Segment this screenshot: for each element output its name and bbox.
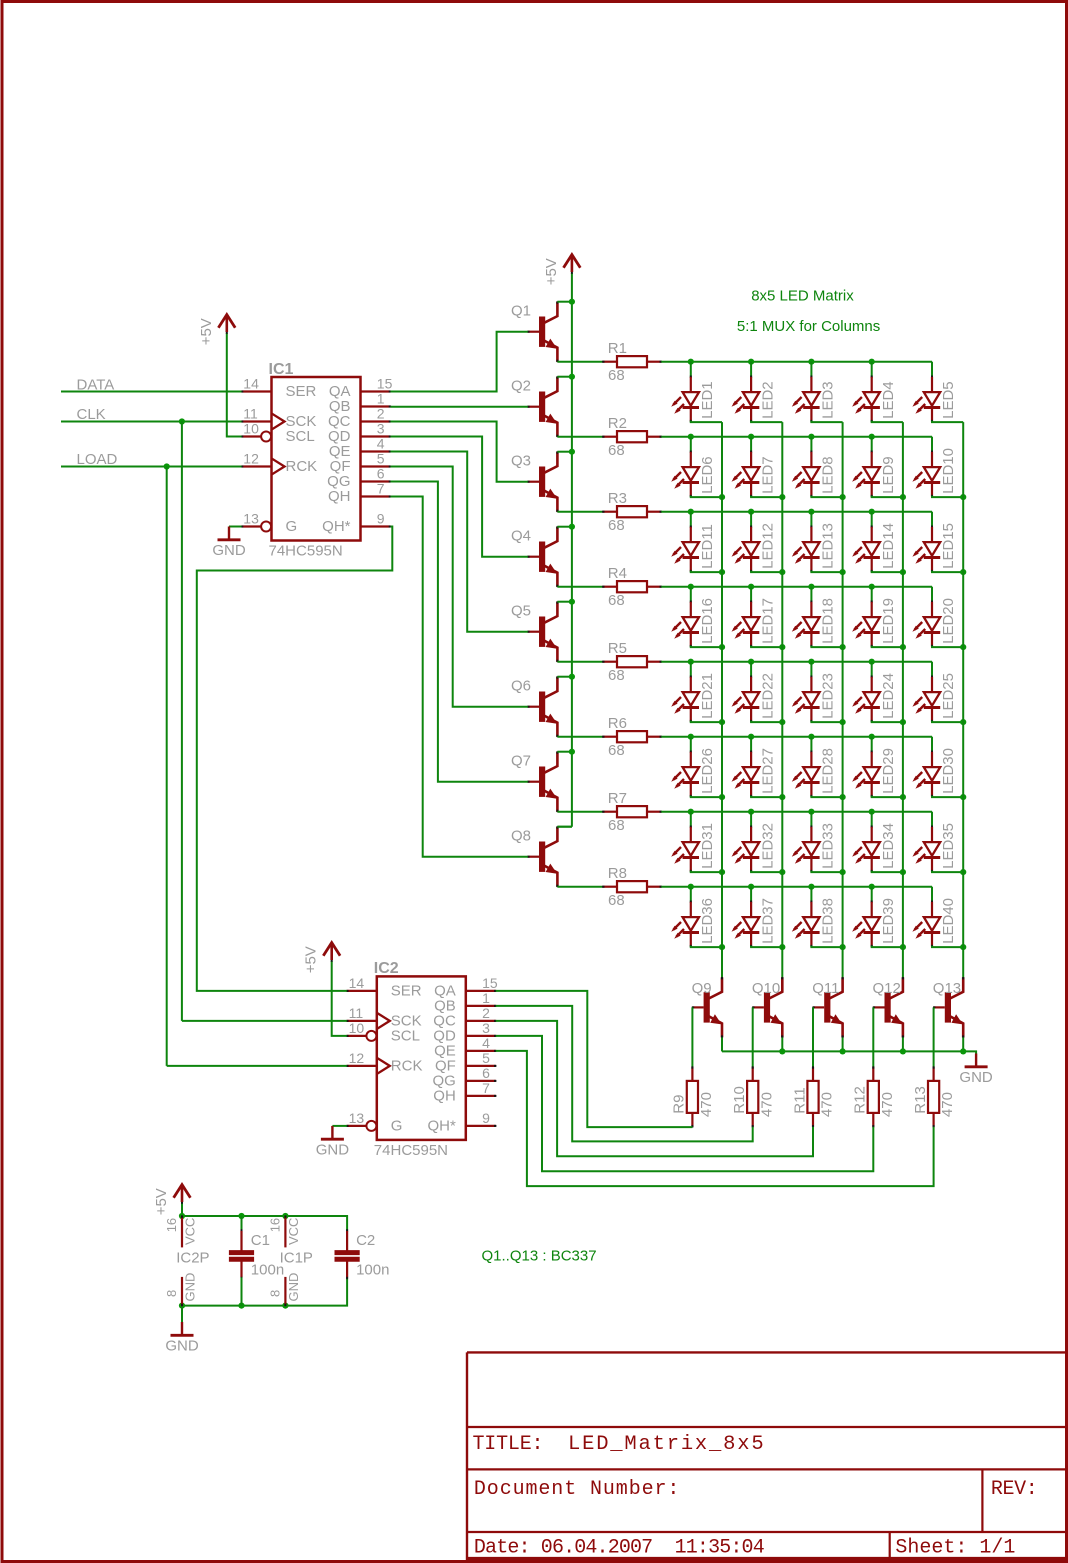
wire +5V to VCC rail xyxy=(181,1203,183,1216)
resistor R3 68 xyxy=(603,511,617,513)
wire LED7 cathode jog to column bus 2 xyxy=(751,496,782,497)
pin 15 QA of IC2 xyxy=(466,990,496,992)
LED LED29 xyxy=(871,737,873,752)
LED LED7 xyxy=(750,437,752,452)
junction cathode bus 1 row 4 xyxy=(719,644,725,650)
wire LED9 cathode jog to column bus 4 xyxy=(872,496,903,497)
svg-text:+5V: +5V xyxy=(153,1188,170,1215)
junction cathode bus 3 row 6 xyxy=(840,794,846,800)
power pin VCC 16 of IC2P xyxy=(181,1216,183,1247)
svg-text:LED3: LED3 xyxy=(820,381,837,419)
+5V power symbol xyxy=(181,1201,183,1204)
LED LED14 xyxy=(871,512,873,527)
wire LED15 cathode jog to column bus 5 xyxy=(932,571,963,572)
junction on LOAD xyxy=(164,463,170,469)
junction cathode bus 1 row 3 xyxy=(719,569,725,575)
svg-text:Q13: Q13 xyxy=(933,980,961,997)
svg-text:R12: R12 xyxy=(852,1086,869,1114)
svg-text:QH: QH xyxy=(328,488,351,505)
svg-text:LED1: LED1 xyxy=(699,381,716,419)
power pin GND 8 of IC2P xyxy=(181,1277,183,1306)
junction cathode bus 2 row 4 xyxy=(779,644,785,650)
junction cathode bus 1 row 8 xyxy=(719,944,725,950)
svg-text:Sheet: 1/1: Sheet: 1/1 xyxy=(895,1537,1015,1560)
power pin VCC 16 of IC1P xyxy=(284,1216,286,1247)
wire CLK to IC2 SCK vertical xyxy=(181,422,183,1021)
svg-text:1: 1 xyxy=(482,990,490,1006)
transistor Q13 xyxy=(945,992,951,1022)
svg-text:LED24: LED24 xyxy=(880,673,897,719)
svg-text:IC2: IC2 xyxy=(374,960,399,977)
transistor Q6 xyxy=(539,692,545,722)
+5V power symbol xyxy=(331,959,333,962)
wire Q12 base down to R12 xyxy=(872,1007,874,1067)
resistor R5 68 xyxy=(603,661,617,663)
svg-text:LED27: LED27 xyxy=(759,748,776,794)
LED LED32 xyxy=(750,812,752,827)
svg-text:LED23: LED23 xyxy=(820,673,837,719)
resistor R13 470 xyxy=(932,1067,934,1081)
junction cathode bus 2 row 3 xyxy=(779,569,785,575)
LED LED15 xyxy=(931,512,933,527)
svg-text:IC1: IC1 xyxy=(269,361,294,378)
junction cathode bus 3 row 4 xyxy=(840,644,846,650)
junction cathode bus 2 row 8 xyxy=(779,944,785,950)
IC IC2 74HC595N box xyxy=(377,976,466,1140)
LED LED28 xyxy=(810,737,812,752)
svg-text:Q2: Q2 xyxy=(511,378,531,395)
svg-text:68: 68 xyxy=(608,667,625,684)
LED LED37 xyxy=(750,887,752,902)
wire IC2 QA to R9 xyxy=(496,991,693,1127)
wire LED31 cathode jog to column bus 1 xyxy=(691,871,722,872)
junction on CLK xyxy=(179,418,185,424)
svg-text:RCK: RCK xyxy=(391,1058,423,1075)
wire Q1 emitter to R1 xyxy=(557,361,602,363)
wire LED19 cathode jog to column bus 4 xyxy=(872,646,903,647)
title block REV divider xyxy=(981,1469,983,1532)
junction anode LED1 xyxy=(688,359,694,365)
junction Q11 emitter on ground rail xyxy=(840,1048,846,1054)
wire LED17 cathode jog to column bus 2 xyxy=(751,646,782,647)
junction cathode bus 1 row 6 xyxy=(719,794,725,800)
wire LED10 cathode jog to column bus 5 xyxy=(932,496,963,497)
wire IC2 G to ground xyxy=(332,1125,346,1127)
svg-text:Q10: Q10 xyxy=(752,980,780,997)
LED LED1 xyxy=(690,362,692,377)
svg-text:470: 470 xyxy=(758,1092,775,1117)
wire IC2 QC to R11 xyxy=(496,1021,813,1156)
svg-text:LED30: LED30 xyxy=(940,748,957,794)
svg-text:LED40: LED40 xyxy=(940,898,957,944)
junction Q4 collector on rail xyxy=(569,524,575,530)
LED LED23 xyxy=(810,662,812,677)
pin 3 QD of IC2 xyxy=(466,1035,496,1037)
wire GND rail to ground symbol xyxy=(181,1306,183,1322)
svg-text:68: 68 xyxy=(608,742,625,759)
svg-text:Q8: Q8 xyxy=(511,828,531,845)
junction cathode bus 3 row 5 xyxy=(840,719,846,725)
wire Q7 collector to +5V rail xyxy=(557,751,572,753)
svg-text:LED17: LED17 xyxy=(759,598,776,644)
wire IC1 QE to Q5 base xyxy=(391,452,528,632)
resistor R8 68 xyxy=(603,886,617,888)
LED LED11 xyxy=(690,512,692,527)
pin 6 QG of IC1 xyxy=(361,480,391,482)
wire LED6 cathode jog to column bus 1 xyxy=(691,496,722,497)
svg-text:+5V: +5V xyxy=(543,258,560,285)
pin 12 RCK of IC2 xyxy=(347,1065,377,1067)
junction VCC rail at IC2P xyxy=(179,1213,185,1219)
capacitor C1 100n xyxy=(241,1216,243,1231)
wire Q6 collector to +5V rail xyxy=(557,676,572,678)
svg-text:GND: GND xyxy=(316,1142,350,1159)
junction cathode bus 1 row 2 xyxy=(719,494,725,500)
svg-text:SER: SER xyxy=(391,983,422,1000)
LED LED8 xyxy=(810,437,812,452)
junction Q12 emitter on ground rail xyxy=(900,1048,906,1054)
junction anode LED27 xyxy=(748,734,754,740)
column bus 3 vertical wire xyxy=(842,422,844,978)
svg-text:8x5 LED Matrix: 8x5 LED Matrix xyxy=(751,288,854,305)
LED LED33 xyxy=(810,812,812,827)
ground xyxy=(228,527,230,539)
svg-text:10: 10 xyxy=(243,421,259,437)
svg-text:LED38: LED38 xyxy=(820,898,837,944)
junction cathode bus 5 row 6 xyxy=(960,794,966,800)
wire Q6 emitter to R6 xyxy=(557,736,602,738)
wire LED37 cathode jog to column bus 2 xyxy=(751,946,782,947)
LED LED35 xyxy=(931,812,933,827)
junction anode LED9 xyxy=(869,434,875,440)
svg-text:R1: R1 xyxy=(608,340,627,357)
svg-text:LED12: LED12 xyxy=(759,523,776,569)
wire LED16 cathode jog to column bus 1 xyxy=(691,646,722,647)
wire LED39 cathode jog to column bus 4 xyxy=(872,946,903,947)
wire IC2 QE to R13 xyxy=(496,1051,934,1186)
pin 5 QF of IC2 xyxy=(466,1065,496,1067)
junction anode LED39 xyxy=(869,884,875,890)
wire Q4 emitter to R4 xyxy=(557,586,602,588)
wire R2 to LED row 2 anodes xyxy=(661,436,932,438)
LED LED39 xyxy=(871,887,873,902)
svg-text:SER: SER xyxy=(286,383,317,400)
pin 5 QF of IC1 xyxy=(361,465,391,467)
wire Q10 base down to R10 xyxy=(752,1007,754,1067)
svg-text:9: 9 xyxy=(377,511,385,527)
svg-text:LED21: LED21 xyxy=(699,673,716,719)
wire IC1 QC to Q3 base xyxy=(391,422,528,482)
junction Q7 collector on rail xyxy=(569,749,575,755)
junction Q5 collector on rail xyxy=(569,599,575,605)
column bus 4 vertical wire xyxy=(902,422,904,978)
junction anode LED6 xyxy=(688,434,694,440)
svg-text:LED19: LED19 xyxy=(880,598,897,644)
transistor Q5 xyxy=(539,617,545,647)
wire Q8 emitter to R8 xyxy=(557,886,602,888)
pin 14 SER of IC2 xyxy=(347,990,377,992)
svg-text:G: G xyxy=(391,1118,403,1135)
pin 11 SCK of IC1 xyxy=(242,420,272,422)
svg-text:R7: R7 xyxy=(608,790,627,807)
svg-text:13: 13 xyxy=(243,511,259,527)
wire LED36 cathode jog to column bus 1 xyxy=(691,946,722,947)
svg-text:74HC595N: 74HC595N xyxy=(374,1142,448,1159)
pin 13 G of IC1 xyxy=(242,525,262,527)
junction cathode bus 4 row 8 xyxy=(900,944,906,950)
junction cathode bus 5 row 2 xyxy=(960,494,966,500)
svg-text:GND: GND xyxy=(959,1069,993,1086)
wire Q11 base down to R11 xyxy=(812,1007,814,1067)
junction Q2 collector on rail xyxy=(569,374,575,380)
svg-text:R11: R11 xyxy=(791,1087,808,1113)
svg-text:13: 13 xyxy=(349,1110,365,1126)
svg-text:Document Number:: Document Number: xyxy=(474,1478,680,1501)
LED LED19 xyxy=(871,587,873,602)
junction anode LED23 xyxy=(808,659,814,665)
LED LED22 xyxy=(750,662,752,677)
svg-text:LED13: LED13 xyxy=(820,523,837,569)
ground xyxy=(181,1322,183,1334)
wire R4 to LED row 4 anodes xyxy=(661,586,932,588)
LED LED9 xyxy=(871,437,873,452)
wire Q2 emitter to R2 xyxy=(557,436,602,438)
junction cathode bus 4 row 2 xyxy=(900,494,906,500)
capacitor C2 100n xyxy=(346,1230,348,1232)
junction cathode bus 4 row 4 xyxy=(900,644,906,650)
junction anode LED2 xyxy=(748,359,754,365)
svg-text:470: 470 xyxy=(879,1092,896,1117)
junction anode LED24 xyxy=(869,659,875,665)
wire CLK to IC2 SCK horizontal xyxy=(182,1020,347,1022)
wire LED35 cathode jog to column bus 5 xyxy=(932,871,963,872)
LED LED18 xyxy=(810,587,812,602)
LED LED13 xyxy=(810,512,812,527)
wire LED27 cathode jog to column bus 2 xyxy=(751,796,782,797)
wire Q4 collector to +5V rail xyxy=(557,526,572,528)
junction anode LED7 xyxy=(748,434,754,440)
svg-text:GND: GND xyxy=(212,542,246,559)
junction cathode bus 5 row 4 xyxy=(960,644,966,650)
svg-text:14: 14 xyxy=(243,376,259,392)
svg-text:74HC595N: 74HC595N xyxy=(269,543,343,560)
emitter ground rail wire xyxy=(722,1051,976,1053)
junction Q1 collector on rail xyxy=(569,299,575,305)
wire LED11 cathode jog to column bus 1 xyxy=(691,571,722,572)
svg-text:LED14: LED14 xyxy=(880,523,897,569)
ground xyxy=(975,1054,977,1066)
junction cathode bus 4 row 7 xyxy=(900,869,906,875)
resistor R7 68 xyxy=(603,811,617,813)
resistor R12 470 xyxy=(872,1067,874,1081)
column bus 1 vertical wire xyxy=(721,422,723,978)
junction cathode bus 4 row 3 xyxy=(900,569,906,575)
svg-text:Q1: Q1 xyxy=(511,303,531,320)
junction cathode bus 3 row 7 xyxy=(840,869,846,875)
svg-text:68: 68 xyxy=(608,517,625,534)
junction anode LED16 xyxy=(688,584,694,590)
svg-text:68: 68 xyxy=(608,892,625,909)
junction anode LED3 xyxy=(808,359,814,365)
transistor Q8 xyxy=(539,842,545,872)
wire Q10 emitter to ground rail xyxy=(781,1037,783,1051)
junction anode LED37 xyxy=(748,884,754,890)
svg-text:LED20: LED20 xyxy=(940,598,957,644)
transistor Q2 xyxy=(539,392,545,422)
wire LED1 cathode jog to column bus 1 xyxy=(691,421,722,422)
svg-text:QH*: QH* xyxy=(322,518,351,535)
junction anode LED21 xyxy=(688,659,694,665)
junction anode LED34 xyxy=(869,809,875,815)
title block bottom line xyxy=(467,1557,1067,1561)
svg-text:5: 5 xyxy=(377,451,385,467)
wire IC2 QD to R12 xyxy=(496,1036,874,1171)
junction cathode bus 5 row 7 xyxy=(960,869,966,875)
wire +5V to IC2 SCL xyxy=(332,961,347,1036)
LED LED6 xyxy=(690,437,692,452)
wire LED14 cathode jog to column bus 4 xyxy=(872,571,903,572)
svg-text:R10: R10 xyxy=(731,1086,748,1114)
wire LED21 cathode jog to column bus 1 xyxy=(691,721,722,722)
svg-text:LED6: LED6 xyxy=(699,456,716,494)
pin 9 QH* of IC2 xyxy=(466,1125,496,1127)
wire LED38 cathode jog to column bus 3 xyxy=(811,946,842,947)
title block line below Document row xyxy=(467,1531,1067,1533)
wire LED30 cathode jog to column bus 5 xyxy=(932,796,963,797)
net LOAD wire xyxy=(61,466,242,468)
wire LED20 cathode jog to column bus 5 xyxy=(932,646,963,647)
wire LED25 cathode jog to column bus 5 xyxy=(932,721,963,722)
svg-text:C1: C1 xyxy=(251,1232,270,1249)
junction anode LED19 xyxy=(869,584,875,590)
svg-text:LED4: LED4 xyxy=(880,381,897,419)
LED LED17 xyxy=(750,587,752,602)
svg-text:1: 1 xyxy=(377,391,385,407)
svg-text:C2: C2 xyxy=(356,1232,375,1249)
junction VCC rail at IC1P xyxy=(282,1213,288,1219)
svg-text:Q3: Q3 xyxy=(511,453,531,470)
svg-text:100n: 100n xyxy=(251,1261,284,1278)
svg-text:QH: QH xyxy=(433,1088,456,1105)
svg-text:15: 15 xyxy=(482,975,498,991)
wire LED29 cathode jog to column bus 4 xyxy=(872,796,903,797)
transistor Q3 xyxy=(539,467,545,497)
junction anode LED17 xyxy=(748,584,754,590)
junction cathode bus 3 row 3 xyxy=(840,569,846,575)
pin 7 QH of IC2 xyxy=(466,1095,496,1097)
wire Q7 emitter to R7 xyxy=(557,811,602,813)
svg-text:LED39: LED39 xyxy=(880,898,897,944)
junction cathode bus 2 row 5 xyxy=(779,719,785,725)
pin 1 QB of IC1 xyxy=(361,405,391,407)
svg-text:+5V: +5V xyxy=(303,946,320,973)
transistor Q11 xyxy=(824,992,830,1022)
resistor R11 470 xyxy=(812,1067,814,1081)
svg-text:R5: R5 xyxy=(608,640,627,657)
pin 3 QD of IC1 xyxy=(361,435,391,437)
svg-text:R9: R9 xyxy=(671,1095,688,1114)
transistor Q9 xyxy=(704,992,710,1022)
svg-text:7: 7 xyxy=(377,481,385,497)
wire IC2 QB to R10 xyxy=(496,1006,753,1142)
svg-text:LED32: LED32 xyxy=(759,823,776,869)
svg-text:G: G xyxy=(286,518,298,535)
LED LED20 xyxy=(931,587,933,602)
pin 6 QG of IC2 xyxy=(466,1080,496,1082)
svg-text:3: 3 xyxy=(482,1020,490,1036)
LED LED5 xyxy=(931,362,933,377)
junction cathode bus 4 row 5 xyxy=(900,719,906,725)
LED LED21 xyxy=(690,662,692,677)
svg-text:VCC: VCC xyxy=(286,1218,301,1245)
LED LED2 xyxy=(750,362,752,377)
wire LED22 cathode jog to column bus 2 xyxy=(751,721,782,722)
ground xyxy=(331,1126,333,1138)
svg-text:Date: 06.04.2007 11:35:04: Date: 06.04.2007 11:35:04 xyxy=(474,1537,764,1560)
IC IC1 74HC595N box xyxy=(272,377,361,541)
wire LED2 cathode jog to column bus 2 xyxy=(751,421,782,422)
resistor R1 68 xyxy=(603,361,617,363)
svg-text:R6: R6 xyxy=(608,715,627,732)
wire LED4 cathode jog to column bus 4 xyxy=(872,421,903,422)
svg-text:Q11: Q11 xyxy=(812,980,839,997)
svg-text:10: 10 xyxy=(349,1020,365,1036)
svg-text:6: 6 xyxy=(377,466,385,482)
svg-text:68: 68 xyxy=(608,817,625,834)
wire LED13 cathode jog to column bus 3 xyxy=(811,571,842,572)
svg-text:16: 16 xyxy=(164,1218,179,1232)
pin 15 QA of IC1 xyxy=(361,390,391,392)
svg-text:LED28: LED28 xyxy=(820,748,837,794)
junction cathode bus 2 row 2 xyxy=(779,494,785,500)
svg-text:LED7: LED7 xyxy=(759,456,776,494)
LED LED27 xyxy=(750,737,752,752)
pin 7 QH of IC1 xyxy=(361,495,391,497)
wire Q9 base down to R9 xyxy=(691,1007,693,1067)
svg-text:LED36: LED36 xyxy=(699,898,716,944)
junction anode LED22 xyxy=(748,659,754,665)
resistor R9 470 xyxy=(691,1067,693,1081)
pin 1 QB of IC2 xyxy=(466,1005,496,1007)
junction anode LED29 xyxy=(869,734,875,740)
wire Q1 collector to +5V rail xyxy=(557,301,572,303)
junction anode LED36 xyxy=(688,884,694,890)
svg-text:11: 11 xyxy=(349,1005,364,1021)
wire LED34 cathode jog to column bus 4 xyxy=(872,871,903,872)
junction cathode bus 2 row 6 xyxy=(779,794,785,800)
svg-text:12: 12 xyxy=(349,1050,365,1066)
svg-text:9: 9 xyxy=(482,1110,490,1126)
junction cathode bus 3 row 2 xyxy=(840,494,846,500)
svg-text:LED5: LED5 xyxy=(940,381,957,419)
junction Q3 collector on rail xyxy=(569,449,575,455)
svg-text:470: 470 xyxy=(939,1092,956,1117)
wire LOAD to IC2 RCK horizontal xyxy=(167,1065,347,1067)
LED LED12 xyxy=(750,512,752,527)
junction cathode bus 1 row 5 xyxy=(719,719,725,725)
wire Q12 emitter to ground rail xyxy=(902,1037,904,1051)
svg-text:LED_Matrix_8x5: LED_Matrix_8x5 xyxy=(568,1433,765,1456)
transistor Q4 xyxy=(539,542,545,572)
pin 4 QE of IC1 xyxy=(361,450,391,452)
pin 4 QE of IC2 xyxy=(466,1050,496,1052)
svg-text:LED37: LED37 xyxy=(759,898,776,944)
LED LED38 xyxy=(810,887,812,902)
svg-text:470: 470 xyxy=(819,1092,836,1117)
wire IC1 G to ground xyxy=(229,526,242,528)
transistor Q7 xyxy=(539,767,545,797)
wire LED8 cathode jog to column bus 3 xyxy=(811,496,842,497)
